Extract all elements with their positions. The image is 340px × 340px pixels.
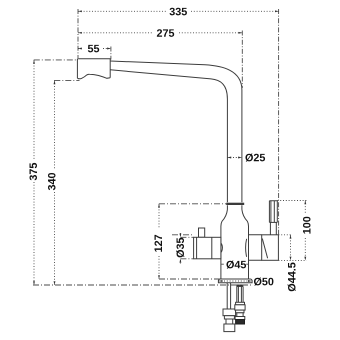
arrows 340: [54, 80, 56, 84]
flange: [218, 279, 252, 283]
arrows O44.5: [290, 235, 292, 239]
arrows 375: [33, 60, 35, 64]
dimension texts: [28, 6, 313, 291]
left supply fitting nut: [223, 309, 236, 316]
right handle lever: [269, 201, 277, 223]
ext line 127 top: [159, 203, 226, 205]
ext line 340 top: [54, 79, 79, 81]
svg-text:Ø50: Ø50: [253, 276, 273, 288]
ext line right of 55: [110, 47, 112, 60]
right supply tube: [237, 287, 243, 303]
dim line 275: [78, 32, 242, 34]
left handle lever stub: [199, 228, 205, 237]
ext line right of 275: [241, 31, 243, 89]
arrows O50: [219, 280, 223, 282]
collar: [226, 203, 244, 205]
left handle body: [194, 237, 221, 258]
right handle neck lines: [249, 235, 262, 260]
right supply dark end: [236, 320, 245, 325]
dim line O25: [227, 157, 242, 159]
body right wall with flare: [242, 210, 249, 279]
ext line O44.5 top: [278, 234, 291, 236]
dim line 335: [78, 10, 279, 12]
arrows O35 outside: [179, 234, 181, 238]
svg-text:335: 335: [169, 6, 187, 18]
svg-text:Ø45: Ø45: [226, 259, 246, 271]
svg-text:100: 100: [301, 216, 313, 234]
deck line: [33, 284, 252, 286]
body left wall with flare: [221, 210, 228, 279]
right supply collar: [236, 302, 245, 305]
svg-text:Ø35: Ø35: [175, 237, 187, 257]
left supply fitting end block: [224, 324, 235, 332]
ext line O35 bottom: [180, 258, 193, 260]
spout tube inner edge: [110, 70, 227, 202]
dim line 100: [304, 201, 306, 261]
svg-text:Ø44.5: Ø44.5: [286, 262, 298, 291]
spout tube outer edge: [110, 61, 242, 202]
svg-text:375: 375: [28, 163, 40, 181]
arrows O25: [227, 157, 231, 159]
dim line 340: [54, 80, 56, 285]
svg-text:340: 340: [47, 172, 59, 190]
arrows 100: [304, 201, 306, 205]
svg-text:55: 55: [87, 43, 99, 55]
dim line O50: [218, 280, 252, 282]
arrows 335: [78, 10, 82, 12]
svg-text:Ø25: Ø25: [245, 152, 265, 164]
right handle base taper line: [262, 239, 267, 259]
ext line 100/O44.5 bottom: [278, 259, 306, 261]
right handle lever seam: [269, 221, 277, 223]
right handle bulge on body: [246, 239, 247, 257]
ext line 100 top: [277, 200, 306, 202]
arrowheads: [33, 10, 306, 285]
right handle lever stem: [270, 222, 276, 234]
svg-text:127: 127: [153, 234, 165, 252]
spout head: [77, 59, 110, 79]
right supply block: [235, 305, 245, 310]
left handle bulge on body: [221, 244, 222, 253]
dim line O45 leaders: [221, 263, 248, 265]
ext line O35 top: [172, 235, 194, 238]
left supply fitting step: [224, 316, 234, 319]
right supply top nut: [236, 285, 243, 287]
tube stub below collar: [227, 205, 242, 209]
right supply lower collar: [235, 317, 245, 320]
ext line left of 335/275/55: [77, 9, 79, 58]
left handle inner lines: [197, 237, 212, 258]
ext line 375 top: [34, 59, 78, 61]
right supply step: [236, 310, 244, 313]
left supply tube: [227, 283, 230, 309]
ext line 127 bottom: [159, 278, 221, 280]
right supply narrow section: [237, 313, 243, 317]
dim line 375: [33, 60, 35, 285]
left supply fitting narrow section: [226, 319, 233, 324]
arrows 127: [158, 204, 160, 208]
dim line 55: [78, 48, 111, 50]
svg-text:275: 275: [156, 28, 174, 40]
arrows 55: [78, 48, 82, 50]
arrows 275: [78, 32, 82, 34]
right handle base: [262, 235, 279, 260]
ext line right of 335: [278, 9, 280, 235]
dim line O44.5: [290, 235, 292, 261]
dim line 127: [158, 204, 160, 279]
dim line O35: [179, 233, 181, 264]
